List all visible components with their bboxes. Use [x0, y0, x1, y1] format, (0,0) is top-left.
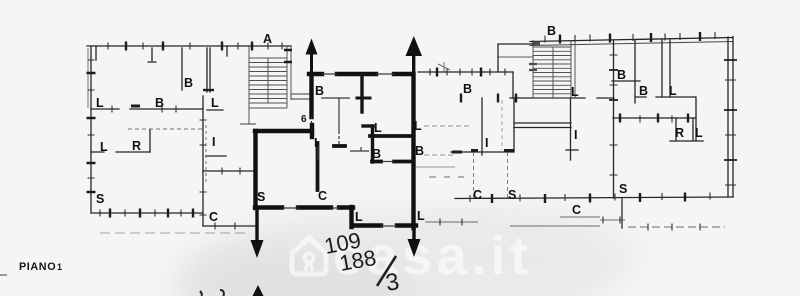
- svg-text:1: 1: [57, 262, 62, 272]
- arrow up right (stair B): [406, 36, 423, 74]
- svg-text:S: S: [257, 190, 265, 204]
- svg-text:R: R: [132, 139, 141, 153]
- left block wall ticks: [87, 42, 253, 218]
- scan shadow wash bottom center: [172, 210, 640, 296]
- svg-text:S: S: [508, 188, 516, 202]
- svg-text:B: B: [372, 147, 381, 161]
- svg-text:B: B: [547, 24, 556, 38]
- svg-text:I: I: [485, 136, 488, 150]
- balcony small rect left of central unit: [240, 94, 311, 124]
- svg-text:B: B: [639, 84, 648, 98]
- svg-text:B: B: [617, 68, 626, 82]
- arrowhead bottom edge: [253, 285, 264, 296]
- room labels left block: [96, 32, 272, 224]
- svg-text:6: 6: [301, 114, 307, 125]
- watermark house icon casa.it: [292, 238, 326, 274]
- right block wall ticks light: [430, 32, 736, 231]
- handwritten slash: [377, 256, 396, 286]
- svg-text:S: S: [619, 182, 627, 196]
- right block balcony thin lines: [416, 62, 725, 227]
- svg-text:B: B: [463, 82, 472, 96]
- svg-text:L: L: [96, 96, 104, 110]
- svg-text:I: I: [314, 136, 317, 150]
- central unit thin lines / window gaps: [282, 74, 397, 226]
- svg-text:B: B: [415, 144, 424, 158]
- room labels right block: [414, 24, 703, 217]
- arrow up near node 6 (stair A): [306, 39, 318, 75]
- svg-text:L: L: [571, 85, 579, 99]
- staircase left (A): [249, 46, 291, 124]
- svg-text:L: L: [669, 84, 677, 98]
- svg-text:C: C: [209, 210, 218, 224]
- svg-text:A: A: [263, 32, 272, 46]
- svg-text:L: L: [100, 140, 108, 154]
- stair landing marks: [284, 50, 292, 62]
- svg-text:L: L: [414, 119, 422, 133]
- corner speck bottom left: [0, 274, 7, 276]
- right block walls: [418, 37, 733, 229]
- svg-text:PIANO: PIANO: [19, 261, 56, 273]
- central unit interior walls: [318, 74, 414, 190]
- svg-text:B: B: [155, 96, 164, 110]
- arrow down left: [251, 209, 264, 258]
- handwriting small marks bottom edge: [200, 290, 224, 296]
- svg-text:L: L: [374, 121, 382, 135]
- svg-text:L: L: [211, 96, 219, 110]
- svg-text:C: C: [318, 189, 327, 203]
- svg-text:I: I: [574, 128, 577, 142]
- svg-text:C: C: [572, 203, 581, 217]
- room labels central unit: [257, 84, 425, 224]
- svg-text:I: I: [212, 135, 215, 149]
- svg-text:L: L: [417, 209, 425, 223]
- left apartment block walls: [87, 46, 291, 226]
- svg-text:B: B: [184, 76, 193, 90]
- left block faint inner lines: [88, 48, 250, 233]
- svg-text:C: C: [473, 188, 482, 202]
- arrow down right: [408, 228, 421, 257]
- svg-text:S: S: [96, 192, 104, 206]
- svg-text:B: B: [315, 84, 324, 98]
- staircase right (B): [529, 40, 575, 98]
- central unit thick walls: [255, 74, 416, 228]
- svg-text:R: R: [675, 126, 684, 140]
- svg-text:L: L: [355, 210, 363, 224]
- right block wall ticks bold: [437, 32, 737, 203]
- svg-text:L: L: [695, 126, 703, 140]
